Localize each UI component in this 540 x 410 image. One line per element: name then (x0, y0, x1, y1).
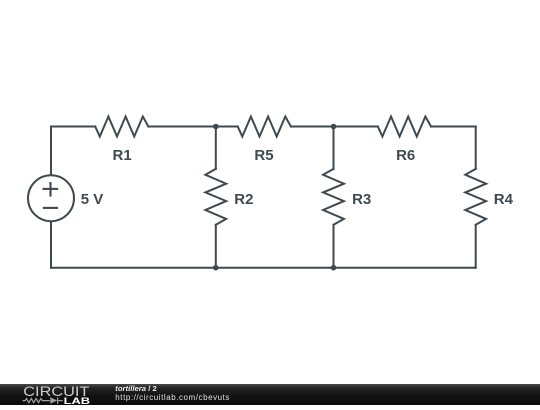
svg-text:R1: R1 (113, 147, 132, 164)
svg-text:tortillera / 2: tortillera / 2 (115, 384, 156, 393)
svg-text:5 V: 5 V (81, 191, 104, 208)
svg-text:R5: R5 (254, 147, 273, 164)
svg-text:http://circuitlab.com/cbevuts: http://circuitlab.com/cbevuts (115, 393, 230, 402)
svg-text:R6: R6 (396, 147, 415, 164)
svg-text:R3: R3 (352, 191, 371, 208)
svg-text:LAB: LAB (64, 396, 91, 405)
svg-text:R2: R2 (234, 191, 253, 208)
svg-text:R4: R4 (494, 191, 514, 208)
